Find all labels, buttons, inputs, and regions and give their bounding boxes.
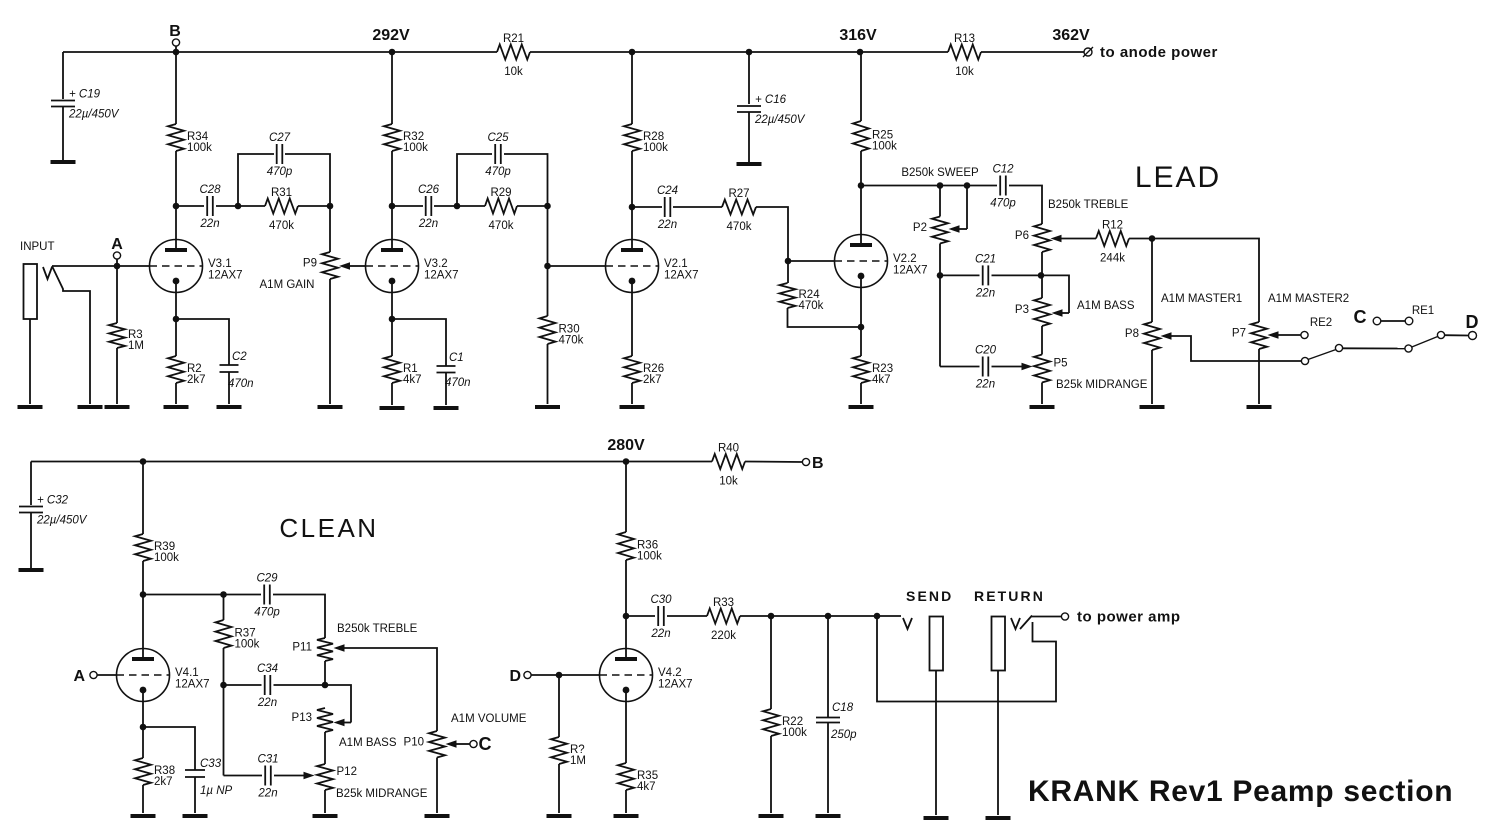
wire C31 to P12 wiper — [274, 772, 315, 780]
wire C26 to node — [434, 205, 454, 207]
svg-text:22n: 22n — [199, 218, 219, 230]
potentiometer P8 A1M MASTER1 — [1125, 322, 1160, 350]
resistor R28 100k — [624, 124, 668, 154]
svg-text:C34: C34 — [257, 663, 278, 675]
junction R29/C25/R30 — [544, 203, 551, 210]
wire P2 column down to C20 — [939, 275, 941, 366]
svg-text:100k: 100k — [235, 639, 260, 651]
svg-text:12AX7: 12AX7 — [658, 679, 693, 691]
wire to V4.2 grid — [559, 674, 600, 676]
svg-text:P6: P6 — [1015, 230, 1029, 242]
terminal B — [169, 23, 181, 52]
wire node to R29 — [457, 205, 485, 207]
svg-text:P2: P2 — [913, 222, 927, 234]
svg-text:V2.2: V2.2 — [893, 253, 917, 265]
svg-text:470p: 470p — [254, 607, 280, 619]
svg-text:P5: P5 — [1054, 358, 1068, 370]
svg-text:A: A — [111, 236, 123, 253]
wire anode to C24 — [632, 206, 662, 208]
wire R12 to master node — [1129, 238, 1152, 240]
junction V2.1 anode node — [629, 204, 636, 211]
ground C19 — [51, 160, 76, 164]
wire R37 column down to C31 — [223, 685, 225, 776]
capacitor C1 470n — [437, 352, 471, 389]
svg-text:22n: 22n — [650, 628, 670, 640]
wire C19 to ground — [62, 107, 64, 161]
wire rail to R32 — [391, 52, 393, 124]
terminal C contact — [1373, 317, 1381, 325]
wire rail to R34 — [175, 52, 177, 124]
wire P13 wiper — [325, 685, 351, 726]
ground C32 — [19, 568, 44, 572]
svg-text:C28: C28 — [199, 184, 221, 196]
capacitor C2 470n — [220, 351, 254, 390]
wire P7 wiper to RE2 — [1268, 331, 1302, 339]
wire R22 to ground — [770, 736, 772, 813]
terminal blade end 2 — [1437, 331, 1444, 338]
wire P6 wiper to R12 — [1051, 235, 1097, 243]
svg-text:1M: 1M — [570, 755, 586, 767]
resistor R34 100k — [168, 124, 212, 154]
wire sweep node — [861, 185, 997, 187]
potentiometer P11 B250k TREBLE — [292, 638, 333, 661]
wire up to C27 — [238, 154, 274, 206]
wire grid node to Rx — [558, 675, 560, 737]
wire C28 to node — [216, 205, 235, 207]
wire node to R37 — [223, 595, 225, 621]
wire node to R22 — [770, 616, 772, 709]
wire V4.2 cathode to R35 — [625, 690, 627, 763]
ground P10 — [425, 814, 450, 818]
svg-text:4k7: 4k7 — [637, 781, 656, 793]
wire R27 down to V2.2 grid node — [756, 207, 788, 261]
wire P9 wiper to V3.2 grid — [339, 262, 366, 270]
junction V2.2 cathode node — [858, 324, 865, 331]
ground input switch contact — [78, 405, 103, 409]
svg-text:22n: 22n — [975, 379, 995, 391]
capacitor C32 22u/450V — [19, 495, 88, 527]
wire R33 to send — [740, 615, 901, 617]
svg-text:A1M GAIN: A1M GAIN — [260, 279, 315, 291]
capacitor C20 22n — [975, 345, 997, 391]
svg-text:100k: 100k — [643, 142, 668, 154]
svg-text:to power amp: to power amp — [1077, 609, 1181, 626]
wire R23 to ground — [860, 383, 862, 404]
capacitor C29 470p — [254, 573, 280, 619]
svg-text:244k: 244k — [1100, 253, 1125, 265]
wire C33 to ground — [194, 777, 196, 813]
svg-text:100k: 100k — [154, 552, 179, 564]
wire P2 wiper — [949, 186, 968, 233]
resistor R24 470k — [780, 283, 824, 312]
svg-text:B25k MIDRANGE: B25k MIDRANGE — [336, 788, 428, 800]
wire bass row left — [224, 684, 262, 686]
junction V3.2 cathode node — [389, 316, 396, 323]
wire R24 to cathode node — [788, 308, 862, 327]
wire cathode to C1 — [392, 319, 446, 366]
resistor R23 4k7 — [853, 356, 893, 386]
svg-text:P9: P9 — [303, 258, 317, 270]
ground R38 — [131, 814, 156, 818]
potentiometer P9 A1M GAIN — [303, 252, 338, 279]
svg-text:RE1: RE1 — [1412, 305, 1434, 317]
wire node to P2 — [939, 186, 941, 217]
wire anode node to V3.2 plate — [391, 206, 393, 250]
wire P12 to ground — [324, 790, 326, 813]
junction — [629, 49, 636, 56]
terminal to anode power — [1083, 44, 1218, 61]
svg-text:R21: R21 — [503, 33, 524, 45]
svg-text:KRANK Rev1 Peamp section: KRANK Rev1 Peamp section — [1028, 775, 1453, 808]
terminal switch pole — [1301, 357, 1308, 364]
svg-text:CLEAN: CLEAN — [279, 513, 378, 543]
terminal C bottom — [470, 740, 477, 747]
wire C21 row left — [940, 274, 980, 276]
ground R30 — [535, 405, 560, 409]
wire to V2.1 grid — [548, 265, 606, 267]
svg-text:362V: 362V — [1052, 27, 1090, 44]
wire D to grid node — [531, 674, 556, 676]
svg-text:R33: R33 — [713, 597, 734, 609]
wire anode node to V4.1 plate — [142, 595, 144, 660]
wire C2 to ground — [228, 372, 230, 404]
wire R26 to ground — [631, 383, 633, 404]
wire C16 to ground — [748, 112, 750, 162]
wire C20 row left — [940, 366, 980, 368]
svg-text:C24: C24 — [657, 185, 678, 197]
junction — [389, 49, 396, 56]
resistor R27 470k — [722, 188, 756, 233]
svg-text:2k7: 2k7 — [187, 374, 206, 386]
wire R39 to anode node — [142, 561, 144, 595]
svg-text:22n: 22n — [257, 788, 277, 800]
resistor R1 4k7 — [384, 356, 422, 386]
svg-text:+ C32: + C32 — [37, 495, 69, 507]
wire R30 to ground — [547, 344, 549, 404]
svg-text:1M: 1M — [128, 340, 144, 352]
junction V3.2 anode node — [389, 203, 396, 210]
svg-text:316V: 316V — [839, 27, 877, 44]
svg-text:D: D — [509, 668, 521, 685]
wire treble row — [143, 594, 261, 596]
capacitor C30 22n — [650, 594, 672, 640]
wire cathode to C2 — [176, 319, 229, 365]
wire anode node to V2.1 plate — [631, 207, 633, 250]
terminal B bottom — [802, 455, 823, 472]
wire C27 to right node — [285, 154, 330, 206]
return jack RETURN — [974, 588, 1045, 671]
ground R3 — [105, 405, 130, 409]
svg-text:470k: 470k — [799, 300, 824, 312]
resistor R35 4k7 — [618, 763, 658, 793]
svg-text:R12: R12 — [1102, 220, 1123, 232]
junction — [623, 458, 630, 465]
svg-text:RETURN: RETURN — [974, 588, 1045, 604]
wire C20 to P5 wiper — [992, 363, 1033, 371]
wire anode to C26 — [392, 205, 423, 207]
resistor R39 100k — [135, 534, 179, 564]
wire master node down to P8 — [1151, 239, 1153, 323]
svg-text:P13: P13 — [292, 712, 312, 724]
junction C26/R29/C25 — [454, 203, 461, 210]
wire blade to D — [1445, 334, 1469, 336]
terminal RE1 contact — [1405, 317, 1413, 325]
svg-text:RE2: RE2 — [1310, 317, 1332, 329]
ground P12 — [313, 814, 338, 818]
svg-text:B250k TREBLE: B250k TREBLE — [337, 623, 418, 635]
ground P5 — [1030, 405, 1055, 409]
svg-text:280V: 280V — [607, 437, 645, 454]
wire A node to R3 — [116, 266, 118, 323]
wire bypass loop send to return contact — [877, 616, 1056, 702]
wire node down to grid node — [547, 206, 549, 266]
terminal blade end — [1335, 344, 1342, 351]
switch blade RE2 — [1308, 350, 1336, 360]
terminal to power amp — [1061, 613, 1068, 620]
wire P8 wiper to switch — [1161, 332, 1302, 361]
svg-text:470k: 470k — [559, 335, 584, 347]
svg-text:100k: 100k — [637, 551, 662, 563]
junction V2.2 grid node — [785, 258, 792, 265]
junction grid node A — [114, 263, 121, 270]
ground return jack — [986, 816, 1011, 820]
wire rail to C19 — [62, 52, 64, 99]
potentiometer P10 A1M VOLUME — [404, 731, 445, 758]
tube V2.1 12AX7 — [606, 240, 699, 293]
svg-text:C18: C18 — [832, 702, 854, 714]
wire rail to R36 — [625, 462, 627, 533]
svg-text:22n: 22n — [975, 287, 995, 299]
svg-text:C31: C31 — [257, 754, 278, 766]
svg-text:1µ NP: 1µ NP — [200, 785, 233, 797]
wire P6 to P3 — [1041, 252, 1043, 298]
svg-text:100k: 100k — [187, 142, 212, 154]
junction R31/C27/P9 — [327, 203, 334, 210]
svg-text:B25k MIDRANGE: B25k MIDRANGE — [1056, 379, 1148, 391]
wire V2.2 cathode down — [860, 276, 862, 327]
resistor R25 100k — [853, 121, 897, 153]
wire between switch sections — [1343, 347, 1405, 349]
resistor R22 100k — [763, 709, 807, 739]
svg-text:C30: C30 — [650, 594, 672, 606]
wire R37 to bass node — [223, 648, 225, 685]
svg-text:B250k TREBLE: B250k TREBLE — [1048, 199, 1129, 211]
resistor R40 10k — [712, 443, 745, 488]
wire send sleeve to ground — [935, 671, 937, 816]
ground R23 — [849, 405, 874, 409]
svg-text:100k: 100k — [872, 141, 897, 153]
svg-text:C20: C20 — [975, 345, 997, 357]
tube V2.2 12AX7 — [835, 235, 928, 288]
wire R29 to node — [517, 205, 548, 207]
wire C31 row left — [224, 775, 263, 777]
junction V2.1 grid node — [544, 263, 551, 270]
potentiometer P7 A1M MASTER2 — [1232, 322, 1267, 349]
svg-text:2k7: 2k7 — [154, 776, 173, 788]
wire V3.1 cathode down — [175, 281, 177, 319]
capacitor C27 470p — [267, 132, 293, 178]
wire cathode to C33 — [143, 727, 195, 770]
svg-text:B: B — [169, 23, 181, 40]
wire rail to R28 — [631, 52, 633, 124]
wire return sleeve to ground — [997, 671, 999, 816]
wire rail to R25 — [860, 52, 862, 121]
wire C12 to P6 top — [1009, 186, 1042, 225]
svg-text:A1M BASS: A1M BASS — [339, 737, 397, 749]
svg-text:4k7: 4k7 — [872, 374, 891, 386]
svg-text:22n: 22n — [257, 697, 277, 709]
junction — [173, 49, 180, 56]
wire rail to C32 — [30, 462, 32, 506]
tube V3.1 12AX7 — [150, 240, 243, 293]
svg-text:+ C19: + C19 — [69, 89, 101, 101]
svg-text:C29: C29 — [256, 573, 278, 585]
junction R37 bottom / C34 — [220, 682, 227, 689]
potentiometer P3 A1M BASS — [1015, 298, 1050, 326]
resistor R21 10k — [497, 33, 530, 78]
junction send node — [874, 613, 881, 620]
wire up to C25 — [457, 154, 492, 206]
wire R32 to anode node — [391, 151, 393, 206]
svg-text:A: A — [73, 668, 85, 685]
wire rail to C16 — [748, 52, 750, 104]
capacitor C25 470p — [485, 132, 511, 178]
wire C21 to P6/P3 node — [992, 274, 1042, 276]
svg-text:220k: 220k — [711, 630, 736, 642]
wire cathode to R38 — [142, 727, 144, 758]
capacitor C18 250p — [816, 702, 857, 741]
wire input tip to V3.1 grid — [52, 265, 150, 267]
svg-text:C1: C1 — [449, 352, 464, 364]
resistor R36 100k — [618, 532, 662, 563]
junction R37 top — [220, 591, 227, 598]
capacitor C16 22u/450V — [737, 94, 806, 126]
resistor R30 470k — [540, 316, 584, 347]
svg-text:V3.1: V3.1 — [208, 258, 232, 270]
svg-text:C25: C25 — [487, 132, 509, 144]
wire R3 to ground — [116, 348, 118, 404]
svg-text:470p: 470p — [485, 166, 511, 178]
svg-text:C33: C33 — [200, 758, 222, 770]
junction P11 bottom / C34 — [322, 682, 329, 689]
wire P10 to ground — [436, 758, 438, 814]
svg-text:P10: P10 — [404, 736, 424, 748]
svg-text:C: C — [1354, 307, 1367, 327]
wire R36 to anode node — [625, 560, 627, 616]
svg-text:2k7: 2k7 — [643, 374, 662, 386]
wire V2.1 cathode to R26 — [631, 281, 633, 356]
svg-text:V4.1: V4.1 — [175, 667, 199, 679]
svg-text:P12: P12 — [337, 766, 357, 778]
wire C29 to P11 top — [273, 595, 325, 639]
wire R38 to ground — [142, 785, 144, 813]
svg-text:470k: 470k — [269, 220, 294, 232]
tube V4.1 12AX7 — [117, 649, 210, 702]
wire master node to P7 — [1152, 239, 1259, 323]
junction C28/R31/C27 — [235, 203, 242, 210]
svg-text:22µ/450V: 22µ/450V — [754, 114, 806, 126]
svg-text:100k: 100k — [403, 142, 428, 154]
junction V4.1 cathode node — [140, 724, 147, 731]
junction C18 top — [825, 613, 832, 620]
svg-text:12AX7: 12AX7 — [424, 270, 459, 282]
junction P2 wiper tap — [964, 182, 971, 189]
resistor R12 244k — [1096, 220, 1129, 265]
wire C24 to R27 — [673, 206, 722, 208]
junction P6 bottom / C21 — [1038, 272, 1045, 279]
junction — [746, 49, 753, 56]
tube V4.2 12AX7 — [600, 649, 693, 702]
wire R40 to terminal B — [745, 461, 803, 464]
wire P13 to P12 — [324, 732, 326, 764]
svg-text:22µ/450V: 22µ/450V — [36, 515, 88, 527]
resistor R26 2k7 — [624, 356, 664, 386]
wire Rx to ground — [558, 764, 560, 813]
svg-text:P3: P3 — [1015, 304, 1029, 316]
svg-text:10k: 10k — [719, 476, 738, 488]
resistor R13 10k — [948, 33, 981, 78]
ground send jack — [924, 816, 949, 820]
terminal D bottom — [509, 668, 531, 685]
wire anode to C30 — [626, 615, 655, 617]
wire grid node to R30 — [547, 266, 549, 316]
resistor R29 470k — [485, 187, 517, 232]
resistor R? 1M — [551, 737, 586, 767]
potentiometer P5 B25k MIDRANGE — [1034, 355, 1068, 383]
svg-text:+ C16: + C16 — [755, 94, 787, 106]
wire R25 to anode node — [860, 151, 862, 186]
junction V3.1 cathode node — [173, 316, 180, 323]
svg-text:4k7: 4k7 — [403, 374, 422, 386]
ground C33 — [183, 814, 208, 818]
junction P2 bottom / C21 — [937, 272, 944, 279]
wire P3 wiper — [1041, 275, 1069, 316]
junction V2.2 anode node — [858, 182, 865, 189]
junction V3.1 anode node — [173, 203, 180, 210]
ground P7 — [1247, 405, 1272, 409]
wire P11 wiper to P10 — [334, 644, 438, 731]
terminal RE2 contact — [1301, 331, 1308, 338]
svg-text:12AX7: 12AX7 — [175, 679, 210, 691]
wire P5 to ground — [1041, 383, 1043, 405]
wire cathode to R2 — [175, 319, 177, 356]
svg-text:R31: R31 — [271, 187, 292, 199]
wire anode node to V3.1 plate — [175, 206, 177, 250]
capacitor C33 1u NP — [185, 758, 233, 797]
ground C16 — [737, 162, 762, 166]
potentiometer P13 A1M BASS — [292, 708, 333, 732]
svg-text:INPUT: INPUT — [20, 241, 55, 253]
wire C1 to ground — [445, 373, 447, 406]
svg-text:P8: P8 — [1125, 328, 1139, 340]
svg-text:470k: 470k — [489, 220, 514, 232]
wire P8 to ground — [1151, 350, 1153, 404]
svg-text:R27: R27 — [728, 188, 749, 200]
resistor R37 100k — [216, 620, 260, 651]
wire input sleeve to ground — [29, 319, 31, 404]
send jack SEND — [903, 588, 953, 671]
resistor R3 1M — [109, 323, 144, 352]
svg-text:470k: 470k — [727, 221, 752, 233]
wire R28 to anode node — [631, 151, 633, 207]
svg-text:A1M MASTER2: A1M MASTER2 — [1268, 293, 1349, 305]
svg-text:470n: 470n — [228, 378, 254, 390]
wire P9 to ground — [329, 279, 331, 404]
capacitor C24 22n — [657, 185, 678, 231]
wire to V2.2 grid — [788, 260, 835, 262]
svg-text:12AX7: 12AX7 — [893, 265, 928, 277]
junction V4.2 anode node — [623, 613, 630, 620]
